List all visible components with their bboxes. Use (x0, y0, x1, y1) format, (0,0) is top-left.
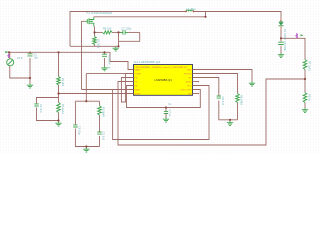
svg-text:UVLO_BYP: UVLO_BYP (181, 90, 193, 92)
node vcc rail (165, 106, 167, 108)
pin stubs right (193, 70, 199, 94)
wire input rail y=52 to VIN pin (9, 52, 134, 69)
output port marker (296, 34, 297, 38)
svg-text:COMP: COMP (135, 74, 142, 76)
wire divider mid FB node (58, 85, 60, 103)
svg-text:VS 5: VS 5 (17, 56, 23, 60)
wire out junction to divider (281, 38, 305, 59)
wire comp loop left (74, 101, 76, 124)
svg-text:R4 100: R4 100 (103, 26, 112, 30)
svg-text:VIN: VIN (188, 94, 192, 96)
wire c6 pin right (193, 78, 219, 96)
wire U-link pins (121, 74, 133, 103)
svg-text:C3 100n: C3 100n (108, 55, 112, 66)
node comp (85, 100, 87, 102)
transistor T1 CSD16404Q5 (86, 17, 95, 33)
node sw join (204, 16, 206, 18)
svg-text:R1 50m: R1 50m (97, 39, 101, 49)
pin end markers U1 unconnected pins (198, 81, 199, 94)
svg-text:C4 3n3: C4 3n3 (39, 104, 43, 113)
wire sw row R4 C2 (95, 31, 103, 33)
node C1 top (29, 51, 31, 53)
svg-text:LM25088MH_TRANS_macro_LM25088-: LM25088MH_TRANS_macro_LM25088-Q1 (135, 66, 189, 69)
svg-text:C5 3n3: C5 3n3 (102, 132, 106, 141)
node C5 top (103, 51, 105, 53)
node sw sense (93, 31, 95, 33)
svg-text:R2 3k4: R2 3k4 (61, 78, 65, 87)
wire V1 bottom to C1 gnd node (10, 66, 30, 78)
voltage source V1 (5, 51, 13, 66)
wire divider stem top (58, 52, 60, 76)
resistor Rs sense (93, 37, 97, 45)
resistor Rtop divider (57, 77, 61, 86)
wire fb pin bottom route (118, 79, 305, 145)
node input gnd (29, 77, 31, 79)
svg-text:R5 5k49: R5 5k49 (102, 107, 106, 117)
node FB (57, 92, 59, 94)
capacitor C9 output (278, 42, 284, 44)
svg-text:U1 LM25088-Q1: U1 LM25088-Q1 (134, 60, 162, 64)
node rt gnd (229, 119, 231, 121)
node comp gnd (85, 145, 87, 147)
node divider gnd (57, 119, 59, 121)
capacitor Ccomp (97, 132, 101, 134)
node L1 left (185, 11, 187, 13)
svg-text:C8 3n3: C8 3n3 (221, 97, 225, 106)
svg-text:LM25088-Q1: LM25088-Q1 (155, 78, 173, 82)
left pin names (135, 69, 142, 96)
wire R5 R6 divider (304, 70, 306, 93)
wire comp loop top (75, 100, 99, 102)
svg-text:GATE: GATE (135, 89, 141, 92)
capacitor C3 (34, 104, 38, 106)
svg-text:GND: GND (187, 70, 192, 72)
diode D1 (cathode up) (278, 20, 283, 29)
ground divider (55, 122, 61, 127)
capacitor C5 (102, 54, 107, 56)
resistor R4 (103, 31, 113, 34)
node ramp gnd (117, 45, 119, 47)
wire divider bottom to gnd (58, 113, 60, 122)
ground C5 (101, 66, 107, 71)
node input (8, 51, 10, 53)
svg-text:C7 1u: C7 1u (168, 110, 172, 118)
ground pgnd (249, 82, 255, 87)
node out (280, 37, 282, 39)
capacitor C6 (217, 96, 221, 98)
svg-text:D1 SS54: D1 SS54 (283, 29, 287, 40)
ground comp (83, 148, 89, 153)
wire c6 rt gnd stem (229, 120, 231, 121)
node fb tap (304, 78, 306, 80)
svg-text:PGOOD: PGOOD (184, 74, 192, 76)
wire comp pin row (86, 73, 125, 75)
wire bottom route from gate row to right pin (113, 86, 209, 140)
capacitor C4 vcc (164, 111, 168, 113)
svg-text:C2 100p: C2 100p (121, 26, 132, 30)
wire sense res stems (94, 32, 96, 36)
svg-text:SYNC: SYNC (186, 82, 192, 84)
wire drain rail y=17 (94, 12, 206, 17)
ground ramp rail (113, 47, 119, 51)
right pin names (181, 70, 193, 96)
pin stubs left (128, 70, 134, 94)
wire riser to comp node (85, 74, 87, 102)
ground C4 (163, 118, 169, 123)
node divider top (57, 51, 59, 53)
capacitor Ccomp2 (73, 125, 77, 127)
svg-text:VCC: VCC (187, 86, 192, 88)
svg-text:L1 33u: L1 33u (186, 7, 196, 11)
resistor Rbot divider (57, 103, 61, 113)
wire L1 right to junction and output corner (194, 12, 282, 22)
wire C5 stem (104, 52, 106, 54)
wire comp loop right (99, 101, 101, 106)
op-amp U1 LM25088-Q1 macro body (134, 65, 193, 96)
svg-text:R3 1k13: R3 1k13 (61, 104, 65, 114)
svg-text:R6 24k9: R6 24k9 (240, 95, 244, 105)
svg-text:RAMP: RAMP (135, 69, 142, 72)
wire ramp cap C2 right jog to gnd (119, 32, 140, 41)
capacitor C2 (horizontal) (120, 30, 128, 35)
svg-text:T1 CSD16404Q5: T1 CSD16404Q5 (86, 11, 113, 15)
input port marker (8, 54, 9, 58)
wire C9 stem (280, 38, 282, 41)
wire FB line to IC pin (59, 93, 134, 95)
wire rt pin right (193, 74, 238, 94)
svg-text:R7 1k91: R7 1k91 (308, 61, 312, 71)
node ramp mid (117, 31, 119, 33)
svg-text:R8 1k: R8 1k (308, 94, 312, 102)
wire C3 branch loop (37, 98, 59, 104)
wire top rail left (SW node to L1) (70, 12, 186, 47)
ground rt c6 (227, 121, 233, 126)
wire ss pin to vcc rail (127, 86, 201, 108)
wire gate riser (82, 21, 86, 89)
wire pgnd pin right (193, 70, 253, 82)
wire comp gnd stem (85, 147, 87, 148)
wire gnd rail y=46.5 (70, 45, 119, 47)
svg-text:C6 10p: C6 10p (78, 126, 82, 135)
svg-text:C9 100u: C9 100u (283, 41, 287, 52)
wire C4 stem (165, 108, 167, 112)
svg-text:10u: 10u (34, 56, 39, 60)
ground output cap (278, 53, 284, 58)
svg-text:AGND: AGND (135, 93, 142, 96)
inductor L1 (186, 10, 194, 12)
capacitor C1 input (28, 54, 33, 56)
resistor R6 (303, 93, 307, 103)
resistor RT (236, 94, 240, 103)
wire gate pin row (82, 89, 134, 91)
ground input cap (27, 84, 33, 89)
resistor Rcomp (98, 106, 102, 115)
wire diode to out junction (280, 27, 282, 38)
node L1 right (193, 11, 195, 13)
ground fb divider right (302, 108, 308, 113)
wire C1 stem (29, 52, 31, 53)
resistor R5 (303, 60, 307, 70)
